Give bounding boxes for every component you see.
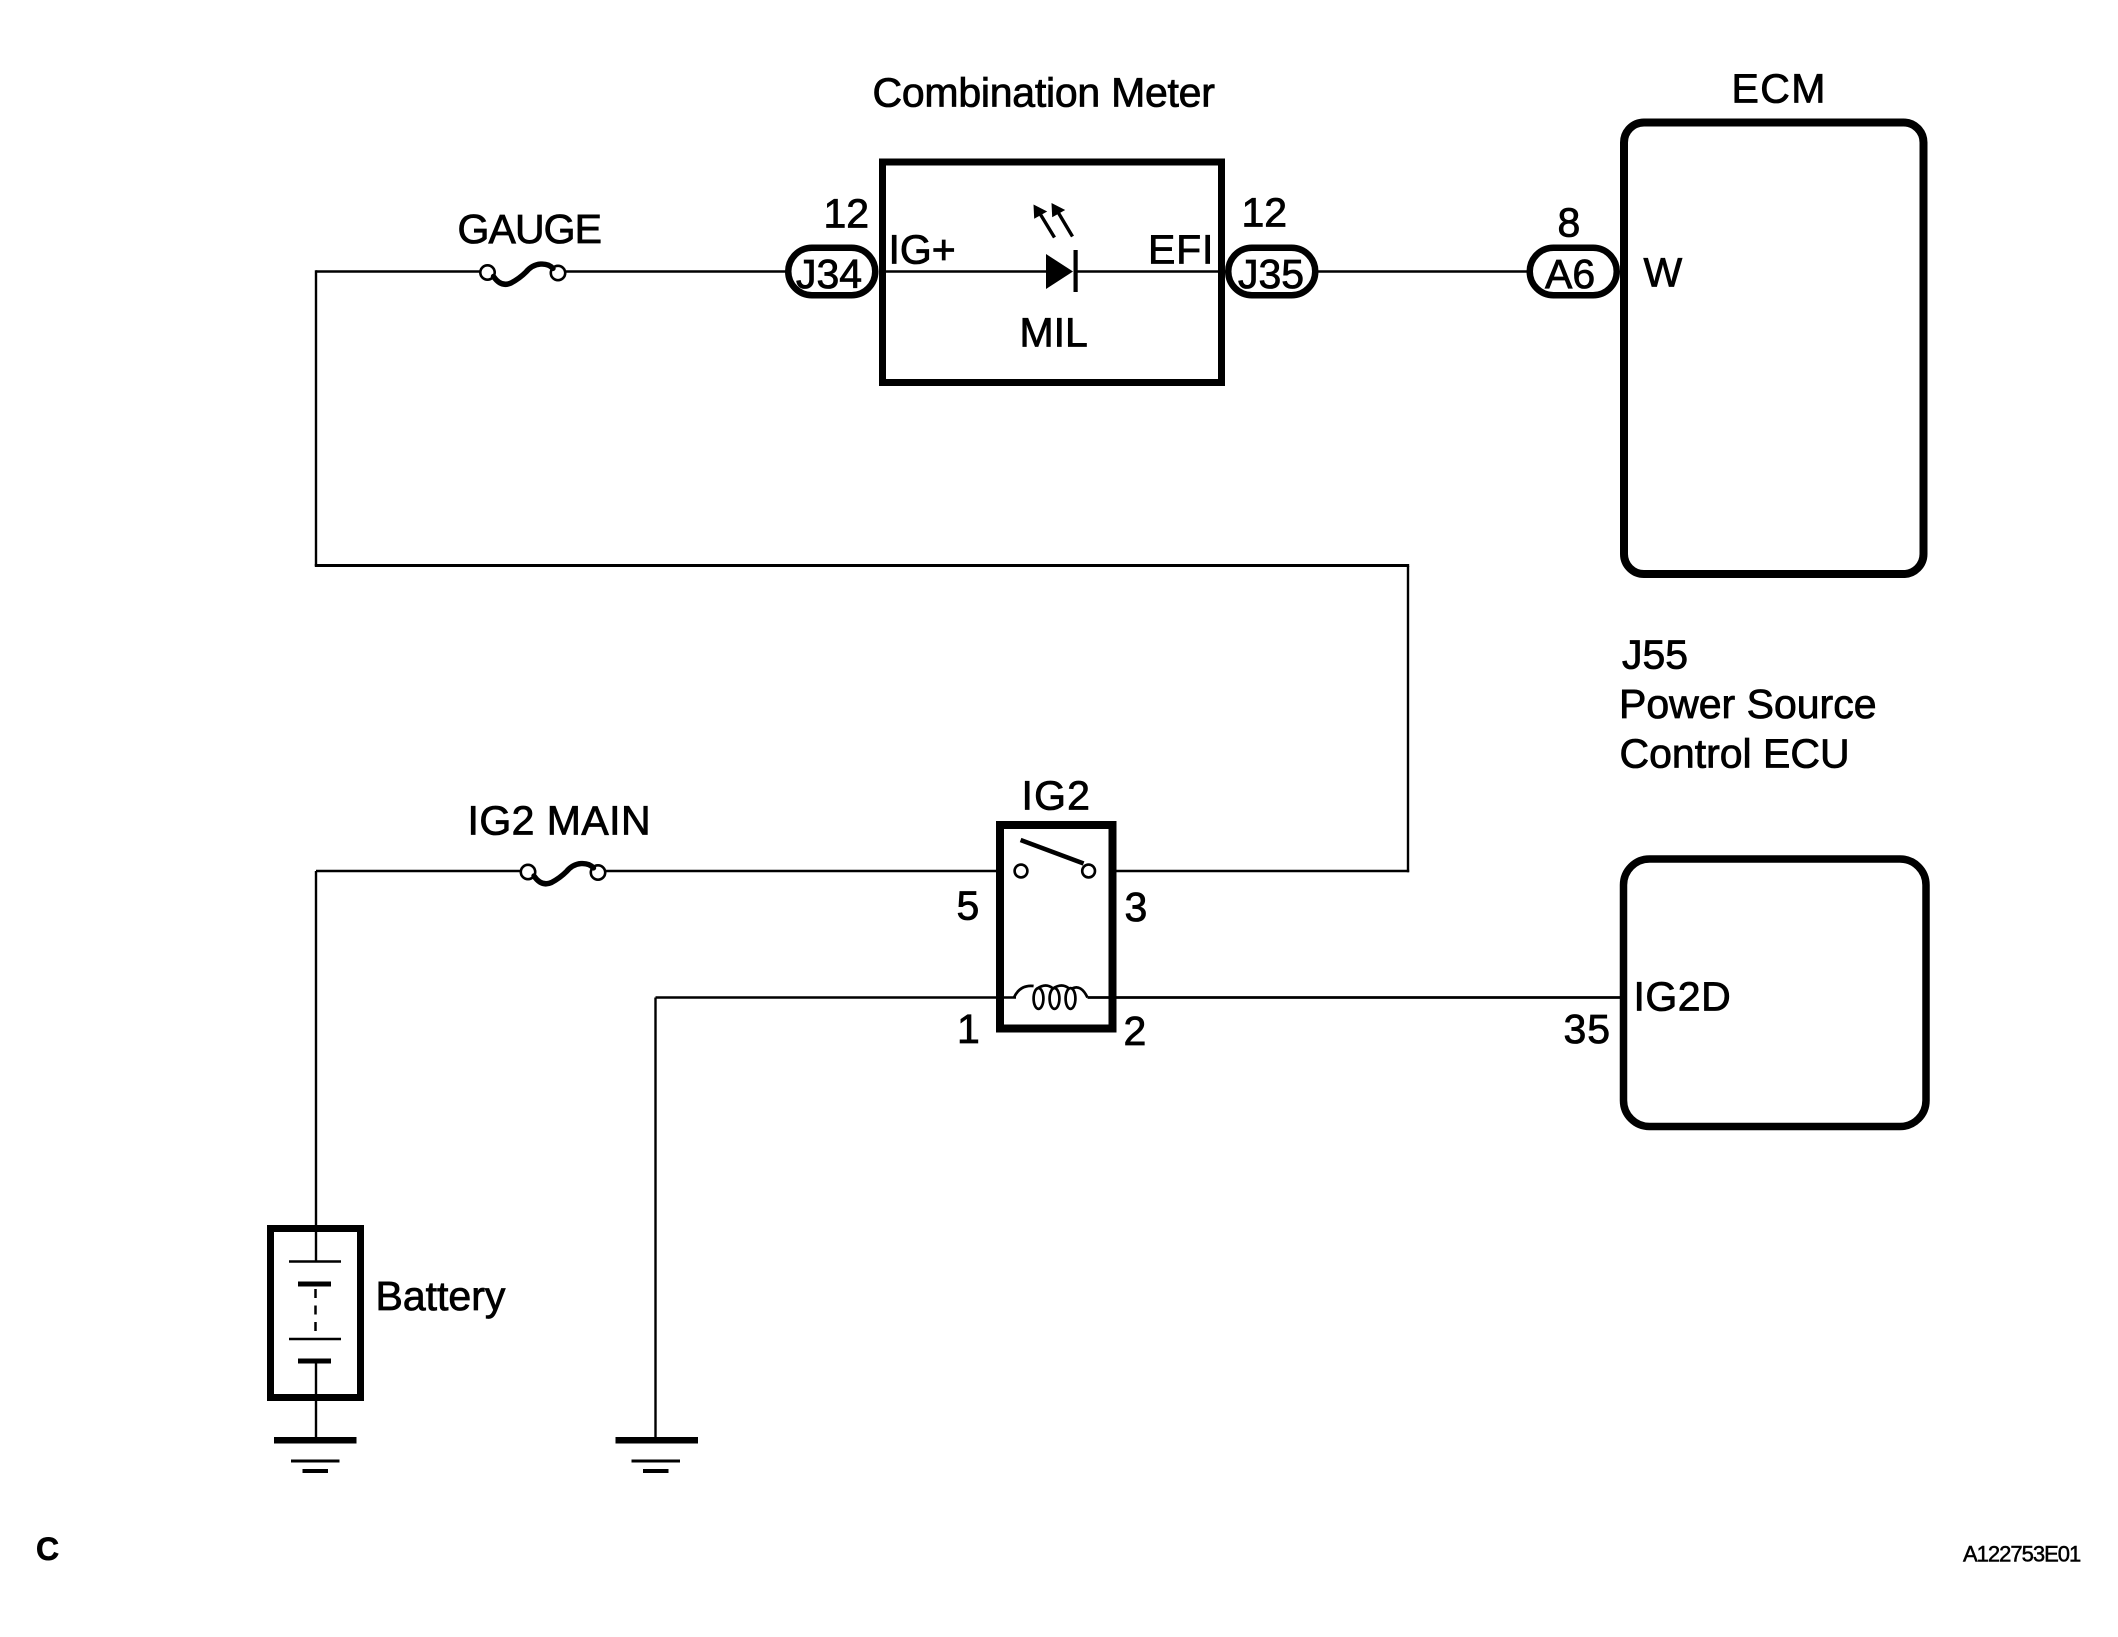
svg-text:IG2 MAIN: IG2 MAIN	[468, 798, 652, 844]
svg-text:IG2: IG2	[1022, 773, 1092, 819]
svg-text:3: 3	[1125, 884, 1148, 930]
svg-text:ECM: ECM	[1732, 66, 1827, 112]
svg-text:12: 12	[1242, 190, 1288, 236]
svg-text:Control ECU: Control ECU	[1620, 731, 1850, 777]
svg-text:IG2D: IG2D	[1634, 974, 1732, 1020]
svg-text:GAUGE: GAUGE	[458, 206, 602, 252]
svg-text:1: 1	[957, 1006, 980, 1052]
svg-text:C: C	[36, 1531, 59, 1567]
svg-text:J34: J34	[796, 251, 862, 297]
svg-text:A6: A6	[1545, 251, 1595, 297]
svg-text:Combination Meter: Combination Meter	[873, 70, 1215, 116]
svg-text:5: 5	[957, 883, 980, 929]
svg-text:IG+: IG+	[889, 227, 956, 273]
svg-text:EFI: EFI	[1148, 227, 1214, 273]
svg-text:8: 8	[1558, 200, 1581, 246]
svg-text:2: 2	[1124, 1008, 1147, 1054]
svg-text:W: W	[1644, 250, 1683, 296]
svg-text:Power Source: Power Source	[1619, 681, 1877, 727]
svg-text:MIL: MIL	[1020, 310, 1088, 356]
svg-text:35: 35	[1564, 1006, 1612, 1052]
svg-text:J35: J35	[1238, 251, 1304, 297]
svg-text:A122753E01: A122753E01	[1963, 1542, 2081, 1567]
svg-text:Battery: Battery	[376, 1273, 506, 1319]
svg-text:12: 12	[824, 191, 870, 237]
svg-text:J55: J55	[1622, 632, 1688, 678]
